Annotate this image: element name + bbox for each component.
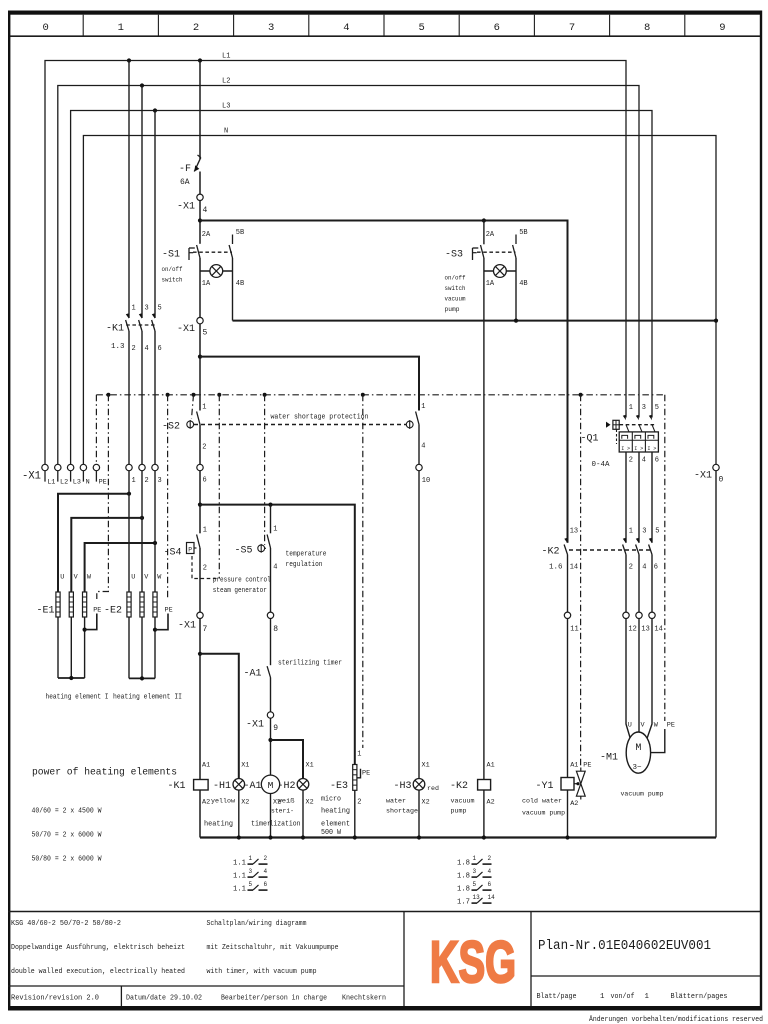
switch -S3 pole 2A-1A [481, 221, 484, 272]
wire H3 to bus [418, 790, 420, 837]
svg-text:pump: pump [451, 808, 467, 816]
svg-text:von/of: von/of [611, 993, 635, 1001]
svg-text:2A: 2A [486, 231, 495, 239]
svg-text:vacuum pump: vacuum pump [522, 810, 565, 818]
svg-text:Doppelwandige Ausführung, elek: Doppelwandige Ausführung, elektrisch beh… [11, 944, 185, 952]
svg-text:6: 6 [264, 881, 268, 888]
svg-text:1: 1 [118, 22, 124, 34]
motor -M1 [626, 732, 650, 773]
terminal X1:2 [139, 464, 149, 485]
wire K2:6 to X1:14 [651, 555, 653, 613]
svg-text:11: 11 [570, 626, 578, 634]
K2 linkage dashed [569, 549, 650, 551]
svg-text:-X1: -X1 [177, 323, 195, 335]
svg-text:-M1: -M1 [600, 752, 618, 764]
E2 PE stub [153, 607, 173, 632]
fuse -F [194, 155, 201, 172]
svg-text:5: 5 [158, 305, 162, 313]
wire X1:8 down [270, 619, 272, 666]
S4 dashed link [195, 547, 197, 549]
svg-text:water shortage protection: water shortage protection [271, 414, 369, 422]
S4 P-box symbol [187, 543, 195, 554]
junction L1/F [198, 58, 202, 62]
svg-text:weiß: weiß [278, 798, 295, 806]
wire N drop to bus [715, 471, 717, 838]
svg-text:1.3: 1.3 [111, 343, 125, 351]
junction H2/bus [301, 835, 305, 839]
svg-text:on/off: on/off [445, 275, 466, 283]
junction H1 branch [198, 652, 202, 656]
svg-text:4: 4 [264, 868, 268, 875]
K1 linkage dashed [126, 324, 156, 326]
svg-text:X1: X1 [241, 762, 249, 770]
junction water-shortage branch [198, 355, 202, 359]
svg-text:2: 2 [264, 855, 268, 862]
junction S3 at L1a wire [482, 218, 486, 222]
svg-text:-A1: -A1 [244, 668, 262, 680]
svg-text:-E2: -E2 [104, 605, 122, 617]
svg-text:PE: PE [99, 479, 107, 487]
svg-text:X2: X2 [306, 799, 314, 807]
svg-text:pressure control: pressure control [213, 577, 271, 585]
capillary dash-dot to S4 [217, 393, 221, 579]
motor PE wire [651, 729, 665, 753]
svg-text:vacuum: vacuum [451, 798, 475, 806]
svg-text:-X1: -X1 [694, 470, 712, 482]
svg-text:1A: 1A [486, 280, 495, 288]
switch -S1 pole 2A-1A [197, 245, 200, 271]
junction X1:1 / E1:U [127, 492, 131, 496]
contactor -K2 contact 5-6 [649, 538, 652, 555]
svg-text:2A: 2A [202, 231, 211, 239]
svg-text:X1: X1 [422, 762, 430, 770]
junction E3/S5 branch [198, 503, 202, 507]
timer contact -A1 [267, 666, 270, 712]
svg-text:-X1: -X1 [246, 719, 264, 731]
heating element -E2 phase W [153, 592, 157, 617]
svg-text:6: 6 [654, 564, 658, 572]
svg-text:40/60 = 2 x 4500 W: 40/60 = 2 x 4500 W [32, 808, 103, 816]
junction A1/bus [268, 835, 272, 839]
svg-text:L2: L2 [222, 78, 230, 86]
junction X1:3 / E1:W [153, 541, 157, 545]
svg-text:PE: PE [93, 607, 101, 615]
svg-text:Blättern/pages: Blättern/pages [671, 993, 728, 1001]
svg-text:4: 4 [642, 457, 646, 465]
wire K1:4 to X1:2 [141, 331, 143, 464]
svg-text:1: 1 [273, 526, 277, 534]
E3 PE stub [357, 769, 370, 778]
svg-text:-X1: -X1 [178, 620, 196, 632]
terminal X1:14 [649, 612, 663, 633]
wire X1:4 down [199, 201, 201, 244]
timer motor -A1 [261, 775, 279, 793]
terminal X1:L1 [42, 464, 56, 486]
svg-text:3~: 3~ [633, 764, 643, 772]
svg-text:PE: PE [362, 770, 370, 778]
svg-text:-A1: -A1 [244, 780, 262, 792]
terminal X1:9 [267, 712, 273, 718]
svg-text:1.6: 1.6 [549, 564, 563, 572]
wire E1:U feed [58, 494, 129, 592]
svg-text:1: 1 [203, 527, 207, 535]
svg-text:50/70 = 2 x 6000 W: 50/70 = 2 x 6000 W [32, 832, 103, 840]
svg-text:1.1: 1.1 [233, 886, 246, 894]
svg-text:M: M [268, 780, 274, 791]
pressure switch -S4 contact [197, 535, 200, 613]
wire L1 rail [45, 61, 626, 465]
wire X1:7 down [199, 619, 201, 780]
svg-text:power of heating elements: power of heating elements [32, 767, 177, 779]
labels E1 U V W [60, 574, 92, 582]
Q1 handle drop dashed [616, 430, 618, 445]
svg-text:timer: timer [251, 821, 271, 829]
labels motor U V W PE [628, 722, 675, 730]
svg-text:14: 14 [570, 564, 578, 572]
heating element -E2 phase U [127, 592, 131, 617]
contactor -K1 contact 3-4 [139, 86, 142, 332]
svg-text:5: 5 [473, 881, 477, 888]
terminal X1:L3 [67, 464, 81, 486]
PE dash-dot to E2 [166, 393, 170, 599]
svg-text:PE: PE [165, 607, 173, 615]
wire Y1 to bus [567, 790, 569, 838]
E1 PE stub [83, 607, 102, 632]
svg-text:9: 9 [273, 724, 278, 733]
wire S5 branch upper [270, 505, 272, 534]
micro heating element -E3 [353, 765, 357, 791]
svg-text:4: 4 [203, 206, 208, 215]
svg-text:5: 5 [655, 404, 659, 412]
svg-text:X1: X1 [306, 762, 314, 770]
svg-text:2: 2 [132, 345, 136, 353]
wire N rail [83, 136, 716, 465]
svg-text:L1: L1 [222, 53, 230, 61]
E1 star point wires [58, 617, 85, 680]
svg-text:1: 1 [473, 855, 477, 862]
svg-text:Revision/revision 2.0: Revision/revision 2.0 [11, 995, 99, 1003]
svg-text:double walled execution, elect: double walled execution, electrically he… [11, 968, 185, 976]
svg-text:1.7: 1.7 [457, 899, 470, 907]
lamp in S3 [484, 265, 516, 278]
svg-text:14: 14 [488, 894, 496, 901]
svg-text:I: I [647, 446, 650, 452]
wire X1:1 to E2:U [128, 471, 130, 592]
wire E3 to bus [354, 790, 356, 837]
svg-text:4B: 4B [236, 280, 244, 288]
terminal X1:13 [636, 612, 650, 633]
svg-text:1.8: 1.8 [457, 873, 470, 881]
lamp in S1 [200, 265, 233, 278]
svg-text:-H1: -H1 [213, 780, 231, 792]
wire K1 coil to bus [199, 790, 201, 838]
K2 contact cross-reference 13-14 [457, 894, 495, 907]
wire K2:2 to X1:12 [625, 555, 627, 613]
svg-text:L3: L3 [222, 103, 230, 111]
S4 capillary dashed leader [192, 556, 219, 579]
heating element -E2 phase V [140, 592, 144, 617]
svg-text:steri-: steri- [271, 808, 294, 816]
junction E3/bus [353, 835, 357, 839]
terminal X1:L2 [55, 464, 69, 486]
svg-text:4: 4 [642, 564, 646, 572]
contactor -K2 contact 3-4 [636, 538, 639, 555]
neutral bus wire [200, 836, 716, 838]
motor breaker -Q1 body [619, 425, 658, 452]
junction H2 branch [268, 738, 272, 742]
terminal X1:11 [564, 612, 578, 633]
K2 contact cross-reference 5-6 [457, 881, 492, 894]
junction H3/bus [417, 835, 421, 839]
svg-text:4: 4 [488, 868, 492, 875]
svg-text:-E1: -E1 [37, 605, 55, 617]
wire L3 rail [71, 111, 652, 465]
svg-text:M: M [635, 743, 641, 754]
junction Y1/bus [565, 835, 569, 839]
switch -S1 pole 5B-4B [229, 235, 232, 272]
terminal X1:10 [416, 464, 430, 485]
switch -S3 pole 5B-4B [513, 235, 516, 272]
svg-text:12: 12 [628, 626, 636, 634]
svg-text:3: 3 [145, 305, 149, 313]
terminal X1:0 [713, 464, 719, 470]
svg-text:0-4A: 0-4A [592, 461, 610, 469]
level switch -S2 contact 1-2 [197, 412, 200, 465]
junction S3 lamp return [514, 319, 518, 323]
svg-text:2: 2 [193, 22, 199, 34]
svg-text:KSG 40/60-2 50/70-2 50/80-2: KSG 40/60-2 50/70-2 50/80-2 [11, 920, 121, 928]
svg-text:Knechtskern: Knechtskern [342, 995, 386, 1003]
svg-text:>: > [640, 446, 643, 452]
svg-text:1: 1 [645, 993, 650, 1001]
svg-text:13: 13 [641, 626, 649, 634]
svg-text:-Y1: -Y1 [536, 780, 554, 792]
labels E2 U V W [131, 574, 162, 582]
svg-text:-H2: -H2 [278, 780, 296, 792]
wire K2:14 aux to X1:11 [567, 555, 569, 613]
wire branch to E3 [200, 505, 355, 765]
motor breaker -Q1 pole arrows [623, 415, 652, 420]
temperature switch -S5 contact [267, 535, 270, 613]
S2 float symbol right [406, 420, 413, 429]
svg-text:9: 9 [719, 22, 725, 34]
svg-text:-K1: -K1 [106, 323, 124, 335]
K2 aux contact 13-14 [564, 538, 567, 555]
svg-text:4: 4 [343, 22, 349, 34]
svg-text:2: 2 [357, 799, 361, 807]
svg-text:1.1: 1.1 [233, 860, 246, 868]
svg-text:-H3: -H3 [394, 780, 412, 792]
terminal X1:4 [197, 194, 203, 200]
junction X1:2 / E1:V [140, 516, 144, 520]
svg-text:6: 6 [488, 881, 492, 888]
svg-text:3: 3 [473, 868, 477, 875]
terminal X1:3 [152, 464, 162, 485]
svg-text:-X1: -X1 [22, 471, 41, 483]
K2 contact cross-reference 1-2 [457, 855, 492, 868]
column ruler [42, 15, 725, 37]
capillary dash-dot to S5 [263, 393, 267, 545]
svg-text:1: 1 [132, 477, 136, 485]
S3 linkage dashed [477, 251, 516, 253]
svg-text:10: 10 [422, 477, 430, 485]
wire X1:12 to motor U [626, 619, 630, 739]
junction K2/bus [482, 835, 486, 839]
wire K1:2 to X1:1 [128, 331, 130, 464]
svg-text:-F: -F [179, 163, 191, 175]
heating element -E1 phase V [69, 592, 73, 617]
svg-text:500 W: 500 W [321, 829, 342, 837]
svg-text:X2: X2 [422, 799, 430, 807]
svg-text:L2: L2 [60, 479, 68, 487]
svg-text:X2: X2 [241, 799, 249, 807]
svg-text:4: 4 [145, 345, 149, 353]
svg-text:temperature: temperature [286, 551, 327, 559]
wire L1 to fuse [199, 61, 201, 160]
svg-text:8: 8 [644, 22, 650, 34]
svg-text:-K2: -K2 [450, 780, 468, 792]
wire Q1:4 down [638, 452, 640, 543]
heating element -E1 phase W [83, 592, 87, 617]
svg-text:3: 3 [249, 868, 253, 875]
svg-text:5B: 5B [519, 229, 527, 237]
E2 star point wires [129, 617, 155, 681]
wire K2 coil to bus [483, 790, 485, 838]
svg-text:5: 5 [249, 881, 253, 888]
junction L1/K1 [127, 58, 131, 62]
svg-text:shortage: shortage [386, 808, 418, 816]
svg-text:micro: micro [321, 796, 341, 804]
wire A1 motor to bus [270, 794, 272, 838]
PE dash-dot to E3 [361, 393, 365, 748]
svg-text:yellow: yellow [211, 798, 236, 806]
svg-text:mit Zeitschaltuhr, mit Vakuump: mit Zeitschaltuhr, mit Vakuumpumpe [207, 944, 339, 952]
wire to water shortage contact [200, 357, 419, 411]
svg-text:1: 1 [202, 404, 206, 412]
Y1 valve symbol [574, 768, 585, 800]
svg-text:Änderungen vorbehalten/modific: Änderungen vorbehalten/modifications res… [589, 1015, 763, 1024]
wire S1-4B lamp return to N drop [233, 271, 717, 321]
labels Q1 pins 2 4 6 [629, 457, 659, 465]
K1 contact cross-reference 3-4 [233, 868, 268, 881]
wire L2 rail [58, 86, 639, 465]
svg-text:2: 2 [629, 457, 633, 465]
wire H1 to bus [238, 790, 240, 837]
wire X1:10 to H3 [418, 471, 420, 779]
junction H1/bus [237, 835, 241, 839]
lamp -H1 yellow [233, 779, 245, 791]
wire branch to H1 [200, 654, 239, 778]
svg-text:Blatt/page: Blatt/page [537, 993, 577, 1001]
svg-text:1.8: 1.8 [457, 860, 470, 868]
wire X1:2 to E2:V [141, 471, 143, 592]
labels K2 pins 2 4 6 [629, 564, 658, 572]
S1 actuator F symbol [189, 248, 196, 260]
svg-text:2: 2 [629, 564, 633, 572]
svg-text:N: N [224, 128, 228, 136]
svg-text:switch: switch [445, 285, 466, 293]
svg-text:A1: A1 [202, 762, 210, 770]
svg-text:with timer, with vacuum pump: with timer, with vacuum pump [207, 968, 317, 976]
svg-text:2: 2 [203, 565, 207, 573]
labels Q1 pins 1 3 5 [629, 404, 659, 412]
svg-text:1: 1 [421, 403, 425, 411]
svg-text:0: 0 [719, 476, 724, 485]
svg-text:6: 6 [158, 345, 162, 353]
contactor coil -K2 [478, 780, 491, 791]
svg-text:>: > [653, 446, 656, 452]
svg-text:3: 3 [642, 404, 646, 412]
svg-text:cold water: cold water [522, 798, 562, 806]
wire K2:4 to X1:13 [638, 555, 640, 613]
svg-text:1A: 1A [202, 280, 211, 288]
svg-text:1: 1 [600, 993, 605, 1001]
svg-text:U: U [131, 574, 135, 582]
svg-text:-S1: -S1 [162, 249, 180, 261]
svg-text:U: U [628, 722, 632, 730]
wire S3 output down to K2 coil [483, 271, 485, 779]
svg-text:1.8: 1.8 [457, 886, 470, 894]
svg-text:-S3: -S3 [445, 249, 463, 261]
svg-text:0: 0 [42, 22, 48, 34]
svg-text:switch: switch [162, 277, 183, 285]
labels K1 pins 2 4 6 [132, 345, 162, 353]
svg-text:14: 14 [654, 626, 662, 634]
svg-text:6: 6 [203, 477, 207, 485]
svg-text:-S4: -S4 [164, 547, 182, 559]
wire X1:3 to E2:W [154, 471, 156, 592]
junction L3/K1 [153, 108, 157, 112]
wire X1:9 down [270, 718, 272, 775]
wire X1:11 to Y1 [567, 619, 569, 778]
svg-text:-X1: -X1 [177, 201, 195, 213]
svg-text:5: 5 [418, 22, 424, 34]
terminal X1:1 [126, 464, 136, 485]
terminal X1:5 [197, 317, 203, 323]
svg-text:steam generator: steam generator [213, 587, 267, 595]
svg-text:4B: 4B [519, 280, 527, 288]
svg-text:P: P [188, 547, 192, 554]
svg-text:3: 3 [642, 528, 646, 536]
contactor coil -K1 [194, 780, 209, 791]
wire branch to H2 [271, 740, 304, 778]
svg-text:KSG: KSG [430, 930, 516, 995]
svg-text:>: > [627, 446, 630, 452]
svg-text:A1: A1 [570, 762, 578, 770]
capillary dash-dot to S2 float [192, 393, 196, 419]
svg-text:pump: pump [445, 306, 460, 314]
svg-text:A2: A2 [570, 800, 578, 808]
svg-text:PE: PE [667, 722, 675, 730]
wire S1-1A down to X1:5 [199, 271, 201, 317]
svg-text:vacuum pump: vacuum pump [621, 791, 664, 799]
wire X1:6 down [199, 471, 201, 534]
node L1a junction [198, 218, 202, 222]
terminal X1:6 [197, 464, 207, 484]
lamp -H2 white [297, 779, 309, 791]
wire E1:W feed [85, 543, 155, 592]
terminal X1:12 [623, 612, 637, 633]
svg-text:1: 1 [132, 305, 136, 313]
svg-text:2: 2 [488, 855, 492, 862]
svg-text:2: 2 [202, 444, 206, 452]
svg-text:L3: L3 [73, 479, 81, 487]
svg-text:-K1: -K1 [168, 780, 186, 792]
svg-text:element: element [321, 821, 350, 829]
svg-text:6: 6 [655, 457, 659, 465]
terminal X1:7 [197, 612, 203, 618]
junction L2/K1 [140, 83, 144, 87]
